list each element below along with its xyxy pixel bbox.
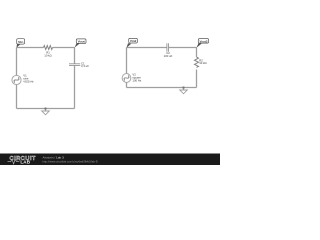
svg-text:3.3 uF: 3.3 uF	[81, 64, 89, 68]
svg-text:LAB: LAB	[20, 159, 30, 164]
svg-text:Vin2: Vin2	[130, 39, 137, 43]
svg-text:Vout: Vout	[78, 40, 85, 44]
svg-text:100 Hz: 100 Hz	[132, 79, 141, 83]
svg-text:4.825 kHz: 4.825 kHz	[23, 79, 34, 83]
svg-text:10 kΩ: 10 kΩ	[199, 61, 206, 65]
svg-text:100 uF: 100 uF	[164, 54, 173, 58]
svg-text:http://www.circuitlab.com/c/my: http://www.circuitlab.com/c/my6wk3fk4t2/…	[43, 160, 99, 164]
svg-text:Vout2: Vout2	[200, 39, 208, 43]
svg-text:Vin: Vin	[18, 40, 24, 44]
svg-text:10 kΩ: 10 kΩ	[44, 53, 51, 57]
